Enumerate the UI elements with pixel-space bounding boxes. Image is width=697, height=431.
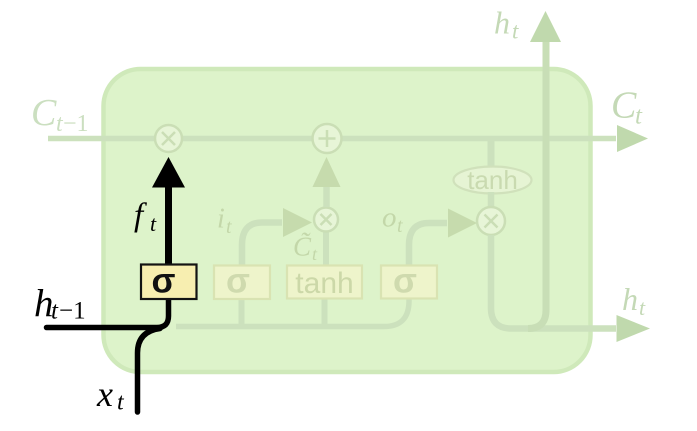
wire multiply to plus (323, 186, 330, 207)
label ht top (494, 5, 519, 44)
cell body (104, 69, 591, 372)
op multiply forget (faded circle) (155, 125, 182, 152)
wire cell line to tanh oval (488, 141, 495, 168)
svg-text:−1: −1 (63, 111, 89, 137)
arrowhead ht top (530, 11, 561, 42)
arrowhead into plus (313, 157, 341, 187)
cell state line (48, 136, 616, 142)
wire ot elbow (409, 223, 447, 266)
svg-text:σ: σ (393, 262, 417, 301)
label ot (382, 202, 403, 238)
gate box tanh (287, 266, 362, 301)
gate box input sigma (214, 262, 270, 301)
op add (313, 124, 342, 153)
svg-text:C: C (31, 92, 57, 134)
svg-text:σ: σ (226, 262, 250, 301)
arrowhead ht right (617, 315, 651, 342)
op multiply output (477, 207, 505, 235)
tanh oval (454, 165, 532, 195)
svg-text:t: t (397, 215, 403, 237)
svg-text:t: t (51, 298, 59, 325)
label ht-1 (34, 283, 86, 326)
label Ct tilde (293, 232, 318, 265)
label xt (96, 374, 125, 416)
wire output down and right to ht (491, 235, 616, 329)
svg-text:t: t (226, 216, 232, 238)
stub to tanh box (322, 299, 328, 324)
label it (217, 204, 232, 239)
svg-text:h: h (622, 281, 638, 317)
svg-text:C̃: C̃ (293, 232, 312, 262)
svg-text:t: t (639, 295, 646, 320)
svg-text:t: t (150, 211, 157, 236)
label ht right (622, 281, 646, 320)
gate box output sigma (381, 262, 437, 301)
wire tanh oval to multiply output (488, 192, 495, 209)
wire Ct tilde vertical (323, 230, 329, 266)
svg-text:tanh: tanh (295, 267, 353, 300)
svg-text:C: C (611, 85, 637, 127)
bottom input connector wire (176, 299, 409, 327)
label ft (134, 198, 157, 237)
svg-text:h: h (494, 5, 510, 41)
wire it elbow (242, 223, 282, 267)
label Ct (611, 85, 643, 130)
wire ht riser (528, 42, 546, 329)
wire ht-1 black input (47, 262, 169, 328)
op multiply input (314, 208, 338, 232)
arrowhead ot (448, 209, 477, 238)
gate box forget sigma (highlighted) (141, 262, 197, 301)
stub to input gate box (239, 299, 245, 324)
svg-text:i: i (217, 204, 225, 235)
label Ct-1 (31, 92, 89, 137)
svg-text:−1: −1 (59, 298, 86, 325)
arrowhead Ct (617, 125, 648, 152)
svg-text:x: x (96, 374, 113, 414)
svg-text:t: t (635, 103, 643, 130)
arrowhead it (283, 208, 312, 237)
wire xt black branch (138, 329, 161, 413)
svg-text:o: o (382, 202, 397, 234)
wire ft arrow shaft (165, 186, 172, 264)
svg-text:σ: σ (152, 262, 176, 301)
svg-text:t: t (512, 19, 519, 44)
arrowhead ft (152, 157, 185, 188)
svg-text:tanh: tanh (467, 165, 518, 195)
